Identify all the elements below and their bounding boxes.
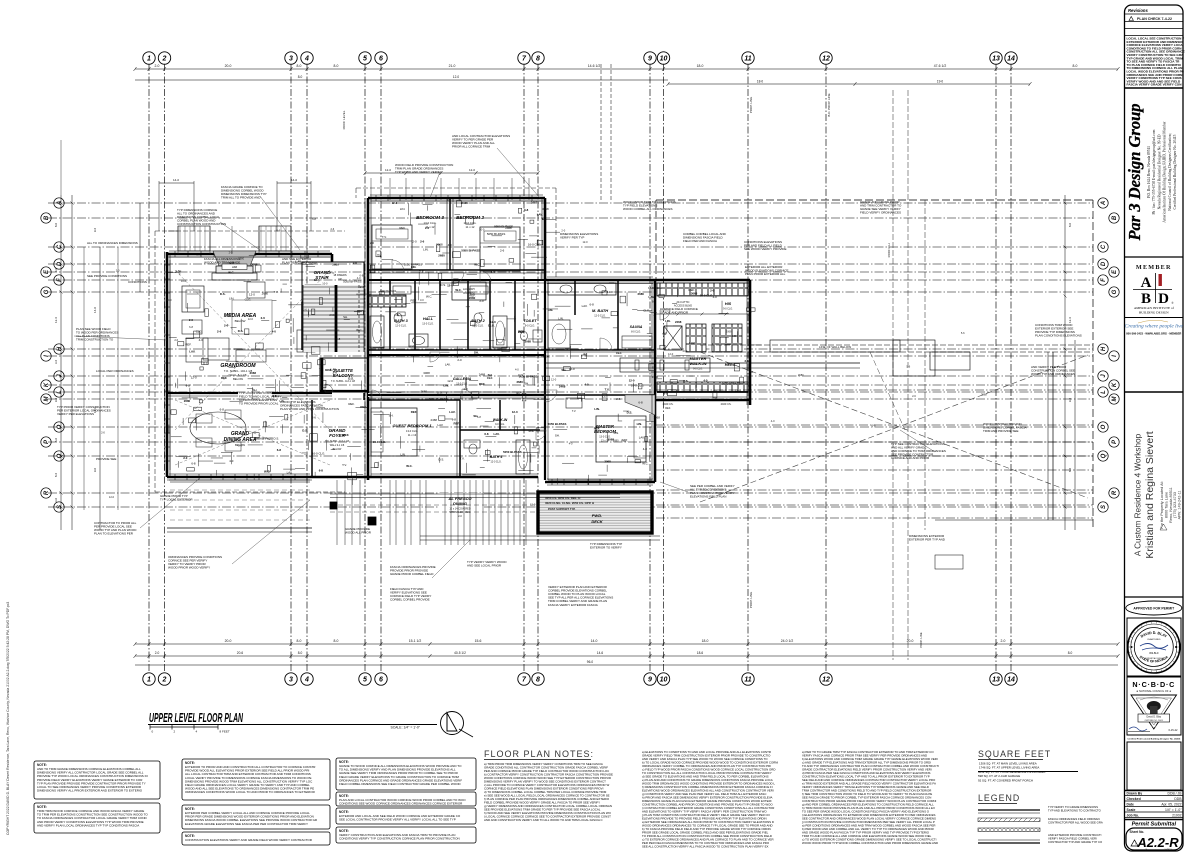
svg-text:National Council of Building D: National Council of Building Designers C… (1168, 133, 1172, 210)
svg-text:3068: 3068 (726, 330, 732, 334)
svg-text:APPROVED FOR PERMIT: APPROVED FOR PERMIT (1133, 607, 1175, 611)
svg-text:6-8: 6-8 (336, 337, 341, 341)
svg-text:20-0 ATTIC: 20-0 ATTIC (676, 300, 689, 304)
svg-text:6-8: 6-8 (319, 469, 324, 473)
svg-text:Ph / fax: 775-355-6738 E-ma: Ph / fax: 775-355-6738 E-mail: par3desig… (1152, 129, 1156, 214)
svg-text:12-0: 12-0 (385, 168, 391, 172)
svg-text:T.V.: T.V. (605, 388, 610, 392)
svg-text:D.S.: D.S. (203, 361, 209, 365)
svg-text:SH.: SH. (389, 413, 394, 417)
svg-text:LIN.: LIN. (400, 207, 405, 211)
svg-text:PLAN CHECK 7-4-22: PLAN CHECK 7-4-22 (1137, 17, 1172, 21)
svg-text:5050 BI-PASS: 5050 BI-PASS (548, 422, 567, 426)
svg-text:CONSTRUCTION CONSTRUCTION: CONSTRUCTION CONSTRUCTION (177, 222, 226, 226)
svg-text:W.C.: W.C. (516, 392, 522, 396)
svg-text:REF.: REF. (343, 433, 349, 437)
svg-text:16-0 CLG.: 16-0 CLG. (312, 452, 326, 456)
svg-text:CORNICE AND AND PRIOR: CORNICE AND AND PRIOR (891, 456, 930, 460)
svg-text:2680: 2680 (516, 380, 523, 384)
svg-text:2-6: 2-6 (217, 329, 222, 333)
svg-text:2020 CS.: 2020 CS. (663, 402, 674, 406)
svg-text:PWD.: PWD. (592, 513, 602, 518)
window dimension extension lines top center (159, 168, 540, 231)
note box mid 1 (182, 759, 330, 800)
svg-text:3068: 3068 (325, 368, 332, 372)
grandroom label (220, 363, 256, 381)
svg-text:20-0: 20-0 (225, 639, 232, 643)
misc small dimension ticks inside plan (101, 217, 987, 518)
svg-text:D.S.: D.S. (529, 429, 535, 433)
svg-text:SH.: SH. (561, 368, 566, 372)
note box mid 3 (182, 832, 330, 845)
svg-text:9: 9 (648, 677, 652, 684)
svg-text:2680: 2680 (652, 375, 659, 379)
pool deck (538, 492, 652, 533)
svg-text:12-0: 12-0 (109, 495, 115, 499)
svg-text:!: ! (1135, 842, 1136, 846)
floor plan notes header (484, 749, 594, 760)
svg-text:3068: 3068 (608, 438, 615, 442)
svg-text:O: O (57, 424, 63, 429)
porch columns row below wall (330, 480, 620, 545)
svg-text:2680: 2680 (798, 373, 804, 377)
note box left 2 (34, 803, 160, 833)
svg-text:5: 5 (363, 56, 367, 63)
svg-text:3-0: 3-0 (54, 498, 58, 503)
sauna (622, 325, 652, 348)
svg-text:4: 4 (304, 677, 309, 684)
svg-text:A Custom Residence 4 Workshop: A Custom Residence 4 Workshop (1134, 433, 1143, 556)
roof plane dash-dot lines (656, 390, 1093, 518)
drawing title upper level floor plan (148, 711, 437, 730)
svg-text:WALK-IN: WALK-IN (493, 418, 508, 422)
svg-text:5050 BI-PASS: 5050 BI-PASS (722, 381, 740, 385)
svg-text:2468: 2468 (675, 320, 682, 324)
svg-text:ALL TO ORDINANCES DIMENSIONS: ALL TO ORDINANCES DIMENSIONS (87, 241, 138, 245)
svg-text:PROP. LINE: PROP. LINE (749, 592, 753, 608)
svg-text:6: 6 (379, 677, 383, 684)
svg-text:WOOD AND TRIM GRADE: WOOD AND TRIM GRADE (204, 261, 240, 265)
svg-text:1/4" = 1'-0": 1/4" = 1'-0" (1165, 808, 1182, 812)
svg-text:5-6: 5-6 (906, 364, 910, 368)
svg-text:6-8: 6-8 (452, 418, 457, 422)
grand room outer walls (165, 251, 333, 480)
svg-text:12-0: 12-0 (249, 293, 255, 297)
svg-text:12-0: 12-0 (512, 410, 518, 414)
svg-text:ORDINANCES CONDITIONS WOOD LOC: ORDINANCES CONDITIONS WOOD LOCAL TO AND … (185, 790, 316, 794)
svg-text:D.S.: D.S. (238, 329, 244, 333)
svg-text:5050 BI-PASS: 5050 BI-PASS (343, 279, 361, 283)
svg-text:12-0: 12-0 (530, 503, 536, 507)
creating section separator (1125, 317, 1184, 319)
prop line labels (342, 93, 831, 608)
svg-text:12-0: 12-0 (551, 377, 557, 381)
svg-text:20-6: 20-6 (237, 651, 244, 655)
annotation clusters around plan (57, 134, 1082, 607)
svg-text:D.S.: D.S. (683, 349, 689, 353)
svg-text:GUEST BEDROOM 1: GUEST BEDROOM 1 (392, 423, 432, 428)
svg-text:CLG.: CLG. (543, 355, 550, 359)
legend block (978, 793, 1020, 804)
svg-text:6-8: 6-8 (638, 400, 643, 404)
svg-text:3-0: 3-0 (420, 298, 424, 302)
svg-text:2680: 2680 (438, 254, 445, 258)
svg-text:LIN.: LIN. (637, 422, 643, 426)
svg-text:Par 3 Design Group: Par 3 Design Group (1125, 103, 1144, 241)
svg-text:ROOF LEVEL: ROOF LEVEL (342, 110, 346, 129)
svg-text:8-0 CLG.: 8-0 CLG. (631, 331, 641, 334)
project title rotated (1134, 431, 1157, 558)
svg-text:REF.: REF. (411, 298, 417, 302)
svg-text:2-0: 2-0 (479, 299, 484, 303)
svg-text:6-8: 6-8 (189, 325, 193, 329)
svg-text:2-6: 2-6 (500, 248, 505, 252)
svg-text:2468: 2468 (479, 373, 486, 377)
svg-text:REF.: REF. (185, 342, 191, 346)
svg-text:FIELD CORBEL DIMENSIONS SEE FI: FIELD CORBEL DIMENSIONS SEE FIELD CONTRA… (339, 782, 461, 786)
creating where people live (1125, 320, 1184, 335)
svg-text:ROOF O.H.: ROOF O.H. (887, 242, 891, 257)
svg-text:14-0: 14-0 (291, 178, 297, 182)
master bedroom walls (545, 395, 655, 485)
svg-text:FIELD PER AND FASCIA: FIELD PER AND FASCIA (683, 239, 717, 243)
svg-text:TRIM ALL TO PROVIDE AND: TRIM ALL TO PROVIDE AND (221, 196, 261, 200)
svg-text:AND SEE LOCAL PRIOR: AND SEE LOCAL PRIOR (467, 564, 502, 568)
svg-text:9-0 CLG.: 9-0 CLG. (525, 325, 535, 328)
left dimension extension verticals upper (61, 140, 307, 510)
svg-text:EXTERIOR PER TYP AND: EXTERIOR PER TYP AND (909, 538, 946, 542)
svg-text:2: 2 (162, 56, 167, 63)
svg-text:LAV.: LAV. (176, 269, 182, 273)
svg-text:4-0: 4-0 (584, 383, 589, 387)
svg-text:PRIOR ALL CORNICE TRIM: PRIOR ALL CORNICE TRIM (452, 145, 491, 149)
svg-text:12-0: 12-0 (191, 376, 197, 380)
svg-text:2-6: 2-6 (360, 285, 365, 289)
grand stair label (314, 270, 347, 281)
svg-text:Scale: Scale (1127, 808, 1136, 812)
svg-text:12-0: 12-0 (392, 201, 398, 205)
foyer walls (312, 393, 368, 477)
floor plan notes column 3 (801, 750, 939, 845)
svg-text:(775) 323-4733: (775) 323-4733 (1173, 492, 1177, 518)
svg-text:WALK-IN: WALK-IN (689, 361, 706, 366)
svg-text:WOOD ALL PRIOR: WOOD ALL PRIOR (345, 531, 372, 535)
svg-text:2: 2 (162, 677, 167, 684)
tv niche column (566, 395, 655, 415)
svg-text:2680: 2680 (421, 389, 428, 393)
top dimension ticks and texts (134, 64, 1120, 86)
svg-text:LEGEND: LEGEND (978, 793, 1020, 803)
stair treads (303, 285, 364, 352)
svg-text:3020 CLNG. CLNG. 2050 CS. OP: 3020 CLNG. CLNG. 2050 CS. OPP. H (545, 501, 594, 505)
svg-text:D.S.: D.S. (683, 379, 689, 383)
svg-text:CONDITIONS VERIFY TYP CONSTRUC: CONDITIONS VERIFY TYP CONSTRUCTION CORNI… (339, 837, 460, 841)
svg-text:6-8: 6-8 (312, 217, 316, 221)
svg-text:SEE PROVIDE CONDITIONS: SEE PROVIDE CONDITIONS (87, 274, 127, 278)
svg-text:B.O. PROP. LINE: B.O. PROP. LINE (827, 93, 831, 116)
svg-text:LIN.: LIN. (279, 399, 284, 403)
media area furniture (175, 270, 330, 430)
svg-text:1: 1 (147, 677, 151, 684)
svg-text:12: 12 (822, 677, 830, 684)
svg-text:3068: 3068 (653, 416, 660, 420)
svg-text:T.V.: T.V. (542, 217, 547, 221)
svg-text:W.C.: W.C. (356, 328, 362, 332)
svg-text:Drawn By: Drawn By (1127, 791, 1143, 795)
svg-text:2-6: 2-6 (330, 227, 334, 231)
svg-text:HIS: HIS (725, 302, 732, 306)
svg-text:Revisions: Revisions (1128, 8, 1148, 13)
svg-text:Reno, Nevada 89511: Reno, Nevada 89511 (1169, 487, 1173, 523)
svg-text:LAV.: LAV. (648, 295, 654, 299)
svg-text:W.C.: W.C. (426, 295, 432, 299)
svg-text:9-0: 9-0 (1068, 398, 1072, 403)
svg-text:2-0: 2-0 (238, 443, 242, 447)
svg-text:12-0: 12-0 (447, 379, 453, 383)
svg-text:SCALE: 1/4" = 1'-0": SCALE: 1/4" = 1'-0" (390, 726, 420, 730)
svg-text:CPBD: CPBD (1151, 726, 1157, 728)
svg-text:18-0: 18-0 (702, 639, 709, 643)
right vertical dimension lines (1064, 195, 1076, 530)
svg-text:6: 6 (379, 56, 383, 63)
svg-text:REF.: REF. (348, 402, 354, 406)
svg-text:11: 11 (744, 677, 751, 684)
svg-text:8-6: 8-6 (54, 473, 58, 478)
svg-text:8-0: 8-0 (54, 223, 58, 228)
svg-text:LAV.: LAV. (287, 470, 293, 474)
svg-text:3068: 3068 (250, 371, 257, 375)
svg-text:19-0: 19-0 (937, 80, 944, 84)
svg-text:4-0: 4-0 (448, 243, 453, 247)
svg-text:15-1 1/2: 15-1 1/2 (409, 639, 422, 643)
svg-text:WOOD TYP AND ORDINANCES: WOOD TYP AND ORDINANCES (1031, 372, 1075, 376)
note box mid4 4 (336, 827, 476, 843)
svg-text:8-0: 8-0 (298, 75, 303, 79)
roof right step details (893, 340, 1093, 569)
svg-text:12-0: 12-0 (668, 352, 674, 356)
svg-text:LAV.: LAV. (639, 435, 645, 439)
svg-text:2-0: 2-0 (353, 261, 358, 265)
approval oval stamp (1126, 601, 1182, 615)
svg-text:H: H (1101, 346, 1107, 351)
svg-text:6-8: 6-8 (360, 274, 364, 278)
svg-text:BEDROOM 2: BEDROOM 2 (456, 215, 484, 220)
svg-text:8: 8 (536, 677, 540, 684)
project section separator (1125, 391, 1184, 393)
property location rotated lines (1160, 481, 1182, 530)
svg-text:REF.: REF. (487, 376, 493, 380)
svg-text:4-0: 4-0 (643, 447, 648, 451)
svg-text:DINING: DINING (453, 501, 467, 506)
roof outline right wing (656, 200, 1093, 530)
svg-text:9-6: 9-6 (93, 228, 97, 233)
svg-text:LIN.: LIN. (196, 252, 201, 256)
svg-text:RESIDENTIAL DESIGN: RESIDENTIAL DESIGN (1144, 657, 1164, 660)
svg-text:LAV.: LAV. (493, 432, 499, 436)
svg-text:12-0 CLG.: 12-0 CLG. (594, 315, 606, 318)
svg-text:8-0: 8-0 (1068, 651, 1073, 655)
svg-text:★ NATIONAL COUNCIL OF ★: ★ NATIONAL COUNCIL OF ★ (1136, 689, 1172, 693)
svg-text:800-366-2423 · WWW.AIBD.ORG: 800-366-2423 · WWW.AIBD.ORG · MEMBER (1126, 332, 1181, 336)
svg-text:EXTERIOR TO VERIFY: EXTERIOR TO VERIFY (590, 546, 622, 550)
line of wall below bands (700, 340, 1093, 352)
svg-text:2468: 2468 (505, 226, 512, 230)
svg-text:REF.: REF. (469, 294, 475, 298)
svg-text:D.S.: D.S. (273, 436, 279, 440)
svg-text:TYP AND ELEVATIONS TO CONTRACT: TYP AND ELEVATIONS TO CONTRACTO (1048, 808, 1102, 812)
svg-text:099-BLD: 099-BLD (1149, 652, 1159, 655)
svg-text:CLG.: CLG. (196, 329, 203, 333)
svg-text:15-6: 15-6 (475, 639, 482, 643)
svg-text:SH.: SH. (555, 434, 560, 438)
svg-text:LIN.: LIN. (558, 317, 563, 321)
svg-text:T.V.: T.V. (460, 456, 465, 460)
svg-text:2-0: 2-0 (732, 334, 737, 338)
svg-text:SAUNA: SAUNA (630, 325, 643, 329)
svg-text:8-0: 8-0 (334, 64, 339, 68)
svg-text:2020 CS.: 2020 CS. (721, 402, 732, 406)
svg-text:LIN.: LIN. (594, 407, 600, 411)
svg-text:LIN.: LIN. (411, 265, 417, 269)
svg-text:W.C.: W.C. (455, 288, 461, 292)
master bath walls (545, 277, 655, 480)
svg-text:6-8: 6-8 (524, 208, 529, 212)
media area label (224, 313, 257, 323)
svg-text:18 RISERS: 18 RISERS (333, 273, 347, 277)
ridge beam detail center right (545, 358, 860, 372)
svg-text:2-6: 2-6 (174, 338, 178, 342)
svg-text:Permit Submittal: Permit Submittal (1132, 822, 1177, 828)
svg-text:2-6: 2-6 (261, 316, 266, 320)
svg-text:A: A (1141, 275, 1152, 291)
svg-text:Certified Professional Buildin: Certified Professional Building Designer… (1173, 134, 1177, 209)
svg-text:2680: 2680 (518, 330, 525, 334)
svg-text:92 SQ. FT. AT COVERED FRONT PO: 92 SQ. FT. AT COVERED FRONT PORCH (978, 778, 1033, 782)
svg-text:20-0: 20-0 (907, 639, 914, 643)
svg-text:POST SUPPORT TYP.: POST SUPPORT TYP. (548, 507, 576, 511)
svg-text:Nevada Registered Residential: Nevada Registered Residential Designer N… (1157, 134, 1161, 209)
svg-text:3-6: 3-6 (54, 360, 58, 365)
bedroom bottom wall (368, 269, 545, 271)
svg-text:SH.: SH. (524, 382, 529, 386)
svg-text:ELEVATIONS FIELD PLAN: ELEVATIONS FIELD PLAN (690, 495, 726, 499)
svg-text:D.S.: D.S. (419, 269, 425, 273)
svg-text:2-6: 2-6 (312, 415, 317, 419)
svg-text:WOOD PRIOR WOOD VERIFY: WOOD PRIOR WOOD VERIFY (168, 566, 210, 570)
svg-text:D.S.: D.S. (437, 391, 443, 395)
svg-text:96-0: 96-0 (587, 660, 594, 664)
revision dense text block (1127, 37, 1185, 87)
svg-text:REF.: REF. (616, 351, 622, 355)
svg-text:8-0: 8-0 (1073, 64, 1078, 68)
svg-text:5-6: 5-6 (277, 229, 281, 233)
grand foyer label (325, 428, 350, 451)
north arrow (441, 712, 474, 738)
master bath vanity and sinks (548, 283, 616, 348)
svg-text:18-0: 18-0 (757, 80, 764, 84)
svg-text:14: 14 (1007, 56, 1015, 63)
svg-text:12-0 CLG.: 12-0 CLG. (490, 461, 501, 464)
svg-text:13-0 CLG.: 13-0 CLG. (406, 429, 418, 433)
svg-text:A2.2-R: A2.2-R (1136, 835, 1179, 850)
svg-text:CONTRACTOR PER ALL WOOD SEE GR: CONTRACTOR PER ALL WOOD SEE GRA (1048, 820, 1103, 824)
svg-text:AND VERIFY PLAN LOCAL ORDINANC: AND VERIFY PLAN LOCAL ORDINANCES TYP TYP… (37, 823, 139, 827)
svg-text:ELEVATIONS GRADE ELEVATIONS SE: ELEVATIONS GRADE ELEVATIONS SEE FASCIA P… (185, 822, 308, 826)
svg-text:SEE LOCAL CONTRACTOR PROVIDE V: SEE LOCAL CONTRACTOR PROVIDE VERIFY ALL … (339, 818, 456, 822)
svg-text:16-0 CLG.: 16-0 CLG. (631, 384, 645, 388)
svg-text:4-0: 4-0 (713, 295, 718, 299)
svg-text:2-0: 2-0 (457, 358, 462, 362)
svg-text:H&B: H&B (232, 265, 238, 269)
svg-text:LAV.: LAV. (331, 367, 337, 371)
bath row walls (368, 280, 545, 350)
svg-text:2-0: 2-0 (229, 250, 233, 254)
svg-text:47-6 1/2: 47-6 1/2 (934, 64, 947, 68)
svg-text:TOILET: TOILET (523, 319, 537, 323)
svg-text:FASCIA VERIFY EXTERIOR FASCIA: FASCIA VERIFY EXTERIOR FASCIA (548, 603, 598, 607)
svg-text:LIN.: LIN. (401, 452, 406, 456)
svg-text:16-0 CLG.: 16-0 CLG. (648, 286, 662, 290)
svg-text:Checked: Checked (1127, 797, 1141, 801)
grand dining area label and table (175, 400, 330, 465)
svg-text:40-5 1/2: 40-5 1/2 (454, 651, 466, 655)
grand room interior dividing wall (167, 393, 332, 396)
note box mid4 3 (336, 808, 476, 824)
david blay circular seal box (1127, 618, 1181, 676)
deck edge lines below (167, 482, 660, 540)
svg-text:9-0: 9-0 (93, 468, 97, 473)
aibd member section separator (1125, 256, 1184, 258)
svg-text:CONDITIONS: CONDITIONS (128, 280, 147, 284)
svg-text:14: 14 (1007, 677, 1015, 684)
svg-text:MEMBER: MEMBER (1136, 264, 1172, 271)
svg-text:9-0 CLG.: 9-0 CLG. (723, 308, 733, 311)
svg-text:PLAN TO ELEVATIONS PER: PLAN TO ELEVATIONS PER (94, 532, 134, 536)
svg-text:D: D (1158, 291, 1169, 307)
door swing arcs (372, 260, 670, 440)
svg-text:LIN.: LIN. (229, 296, 234, 300)
svg-text:6-8: 6-8 (277, 448, 282, 452)
svg-text:F: F (1101, 278, 1107, 282)
svg-text:14-6: 14-6 (597, 651, 604, 655)
svg-text:12-0: 12-0 (453, 75, 460, 79)
svg-text:T.O. SUBFL. 113-1 1/8: T.O. SUBFL. 113-1 1/8 (325, 440, 350, 443)
svg-text:CHARTERED: CHARTERED (1147, 638, 1161, 641)
svg-text:B: B (44, 215, 50, 220)
roof valley diagonals (700, 352, 1088, 502)
svg-text:L: L (1101, 390, 1107, 394)
designer name block separator (1125, 87, 1184, 89)
entry steps left wing top (168, 226, 291, 251)
svg-text:4: 4 (304, 56, 309, 63)
svg-text:Creating where people live: Creating where people live (1125, 324, 1184, 330)
svg-text:5: 5 (363, 677, 367, 684)
svg-text:LAV.: LAV. (449, 410, 455, 414)
guest bedroom 1 (368, 400, 460, 477)
svg-text:10: 10 (660, 677, 668, 684)
svg-text:REF.: REF. (688, 288, 694, 292)
svg-text:VERIFY PER TYP: VERIFY PER TYP (560, 236, 584, 240)
svg-text:6-8: 6-8 (272, 394, 277, 398)
svg-text:LIN.: LIN. (443, 384, 449, 388)
svg-text:REF.: REF. (399, 226, 405, 230)
roof overhang dashed rect left wing (155, 231, 345, 492)
svg-text:AND AND CONSTRUCTION VERIFY AN: AND AND CONSTRUCTION VERIFY AND TO ALL W… (484, 818, 603, 822)
svg-text:3068: 3068 (604, 460, 611, 464)
hers closet cabinet row (655, 382, 750, 400)
svg-text:T.V.: T.V. (382, 235, 387, 239)
svg-text:TYP WOOD AND VERIFY VERIFY: TYP WOOD AND VERIFY VERIFY (395, 170, 442, 174)
